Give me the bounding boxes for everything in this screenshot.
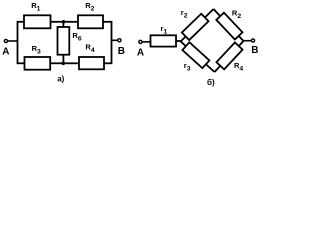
svg-text:А: А	[137, 47, 144, 58]
resistor r3	[182, 42, 209, 68]
resistor r2	[182, 14, 209, 40]
resistor R4 (bridge)	[216, 42, 242, 69]
circuit a) outer loop wire	[18, 22, 112, 64]
svg-text:В: В	[251, 45, 258, 56]
bridge wire left-bottom	[181, 41, 215, 72]
node A	[4, 39, 7, 42]
resistor R6	[58, 27, 70, 55]
svg-text:В: В	[118, 46, 125, 57]
wire R6 vertical link	[62, 22, 64, 64]
node B	[118, 39, 121, 42]
svg-text:а): а)	[57, 74, 64, 83]
bridge wire left-top	[181, 9, 214, 41]
resistor R1	[24, 15, 51, 28]
resistor R2	[78, 15, 103, 28]
node B terminal wire	[112, 39, 119, 41]
svg-text:б): б)	[207, 78, 215, 87]
svg-text:А: А	[2, 47, 9, 58]
bridge wire bottom-right	[215, 41, 244, 72]
resistor r1	[151, 35, 177, 46]
resistor R3	[25, 57, 51, 70]
circuit b) node B terminal wire	[244, 40, 252, 42]
resistor R2 (bridge)	[216, 13, 242, 40]
node A terminal wire	[7, 40, 18, 42]
circuit b) node B	[251, 39, 254, 42]
junction top	[62, 20, 66, 24]
junction bottom	[62, 62, 66, 66]
resistor R4	[79, 57, 104, 69]
bridge wire top-right	[214, 9, 244, 41]
circuit b) node A	[139, 40, 142, 43]
wire r1 to bridge	[176, 40, 182, 42]
circuit b) node A terminal wire	[142, 41, 151, 43]
